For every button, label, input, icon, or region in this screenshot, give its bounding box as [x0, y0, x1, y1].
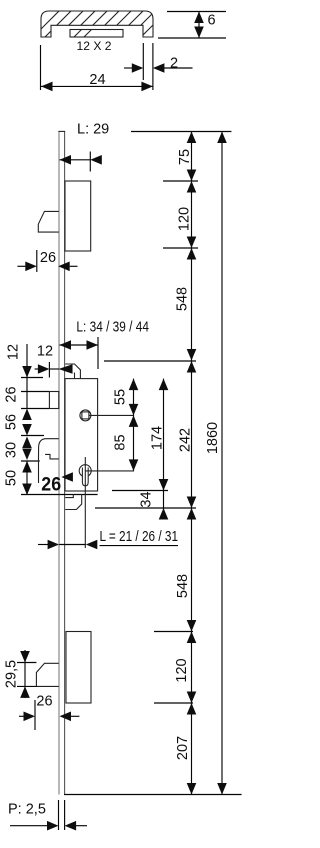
svg-text:P: 2,5: P: 2,5 [8, 802, 46, 818]
dim 55 [133, 379, 135, 416]
euro cylinder keyhole [79, 465, 91, 477]
svg-text:56: 56 [4, 414, 20, 430]
svg-text:26: 26 [41, 475, 61, 496]
bottom reference line [64, 794, 242, 796]
latch bolt top [38, 211, 59, 232]
dim 75 chain [163, 180, 198, 182]
faceplate strip bar 12x2 [70, 30, 123, 38]
dim 24 [40, 45, 42, 90]
latch bolt bottom [36, 663, 58, 686]
svg-text:L = 21 / 26 / 31: L = 21 / 26 / 31 [100, 529, 179, 545]
svg-text:85: 85 [113, 434, 129, 450]
dim 120 lower [154, 631, 193, 633]
hook bolt top (central) [65, 364, 80, 379]
faceplate strip (front view) left edge [58, 131, 60, 794]
svg-text:L: 34 / 39 / 44: L: 34 / 39 / 44 [76, 320, 149, 336]
follower center line [90, 414, 135, 416]
auxiliary pin box [49, 392, 58, 409]
follower square+circle [80, 410, 91, 421]
svg-text:174: 174 [150, 426, 166, 450]
dim 242 [104, 360, 196, 362]
cross-section hatching [30, 0, 190, 40]
svg-text:12 X 2: 12 X 2 [77, 39, 112, 53]
svg-text:75: 75 [177, 149, 193, 165]
dim 6 (profile height) [167, 11, 226, 13]
keeper box bottom [66, 632, 91, 704]
svg-text:548: 548 [175, 574, 191, 598]
svg-text:50: 50 [4, 470, 20, 486]
svg-text:207: 207 [175, 736, 191, 760]
dim 34 [95, 507, 196, 509]
svg-text:12: 12 [37, 344, 53, 360]
svg-text:29,5: 29,5 [4, 660, 20, 688]
svg-text:55: 55 [113, 389, 129, 405]
svg-text:L: 29: L: 29 [77, 122, 109, 138]
dim 207 [191, 703, 193, 795]
strip top cap [58, 130, 65, 132]
dim L21 arrows [38, 544, 48, 546]
dim 548 chain top [191, 248, 193, 361]
dim 120 chain [163, 247, 198, 249]
svg-text:34: 34 [139, 491, 155, 507]
lock case [65, 379, 98, 491]
svg-text:26: 26 [4, 386, 20, 402]
left chain leader [26, 344, 28, 378]
faceplate strip right edge [64, 131, 66, 794]
dim 85 [133, 415, 135, 471]
svg-text:6: 6 [208, 13, 216, 29]
keeper box top [65, 181, 91, 251]
dim 12 horizontal arrows [35, 368, 39, 370]
svg-text:120: 120 [177, 207, 193, 231]
svg-text:12: 12 [6, 344, 22, 360]
svg-text:1860: 1860 [205, 422, 221, 454]
pointer arrow for 26 [61, 472, 73, 482]
faceplate cross-section outer profile [41, 11, 153, 37]
dim 26 top [36, 250, 38, 272]
dim 26 bottom [34, 700, 36, 730]
hook bolt lower step [65, 494, 73, 497]
deadbolt (central) [39, 439, 59, 483]
dim 1860 overall [221, 132, 223, 795]
svg-text:26: 26 [36, 694, 52, 710]
top reference line [131, 131, 231, 133]
svg-text:24: 24 [89, 72, 105, 88]
dim 2 (wall thickness) [142, 43, 144, 80]
left chain ticks and arrows [22, 366, 32, 378]
long line under case [21, 494, 98, 496]
svg-text:548: 548 [175, 287, 191, 311]
svg-text:30: 30 [4, 442, 20, 458]
dim 29,5 [24, 650, 26, 698]
svg-text:242: 242 [178, 428, 194, 452]
svg-text:120: 120 [174, 658, 190, 682]
dim line L34 [97, 337, 99, 369]
svg-text:26: 26 [40, 250, 56, 266]
dim 174 [163, 379, 165, 520]
svg-text:2: 2 [170, 56, 178, 72]
dim 548 lower [191, 508, 193, 632]
cylinder center lines [84, 457, 86, 548]
case bottom tick [112, 490, 168, 492]
